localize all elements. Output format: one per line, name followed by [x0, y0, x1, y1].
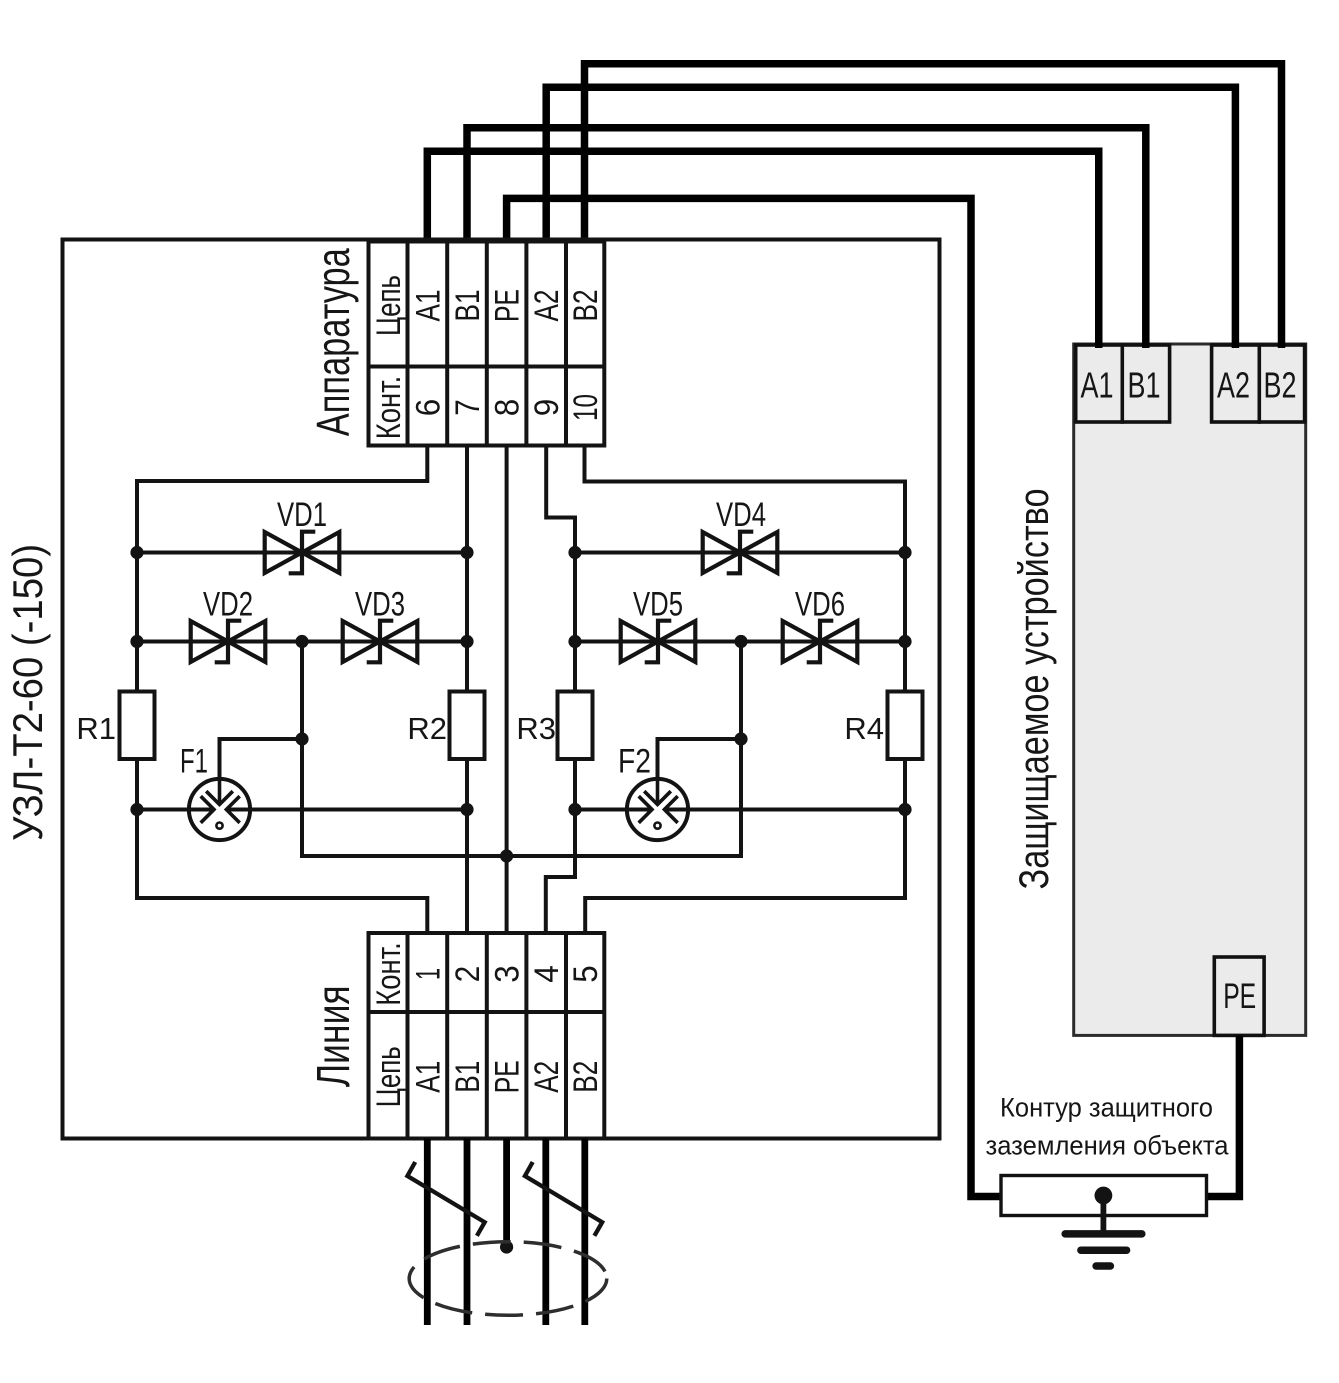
svg-text:8: 8 — [489, 399, 527, 417]
cable B1: contact 7 to device B1 — [467, 128, 1146, 348]
junction dot node F2 top — [734, 732, 747, 745]
junction dot A2 rail / F2 row — [568, 803, 581, 816]
svg-text:B2: B2 — [1264, 365, 1297, 406]
svg-text:VD1: VD1 — [277, 496, 327, 534]
junction dot B1 rail / VD3 row — [460, 635, 473, 648]
wire F2 top electrode to node — [658, 739, 742, 779]
cable slash mark 1 — [407, 1162, 484, 1236]
svg-text:R3: R3 — [516, 711, 556, 746]
junction dot B2 rail / F2 row — [898, 803, 911, 816]
svg-text:A1: A1 — [1081, 365, 1114, 406]
F1 right arrow — [226, 796, 250, 823]
F1 left arrow — [189, 796, 214, 823]
surge arrester F1 circle — [189, 779, 250, 840]
wire B1: contact 7 to contact 2 — [465, 446, 469, 934]
cable bundle dashed ellipse — [409, 1242, 607, 1316]
svg-text:VD3: VD3 — [355, 586, 405, 624]
line cable 3 — [503, 1139, 510, 1243]
ground symbol bar 2 — [1081, 1246, 1127, 1254]
svg-text:1: 1 — [409, 968, 447, 980]
cable slash mark 2 — [525, 1162, 602, 1236]
F2 top arrow — [644, 779, 671, 805]
line cable 5 — [581, 1139, 588, 1326]
ground bus junction dot — [1095, 1187, 1113, 1205]
protected device box — [1074, 344, 1306, 1035]
terminal block Аппаратура: outer frame — [369, 242, 605, 446]
ground symbol bar 1 — [1065, 1230, 1142, 1238]
wire center node link down-across-up — [302, 642, 741, 857]
svg-text:2: 2 — [449, 966, 487, 983]
ground bus bar — [1001, 1176, 1207, 1216]
junction dot node VD5-VD6 — [734, 635, 747, 648]
svg-text:R4: R4 — [844, 711, 884, 746]
junction dot node F1 top — [295, 732, 308, 745]
svg-text:Цепь: Цепь — [370, 1046, 408, 1107]
TVS diode VD4 — [703, 532, 778, 574]
wire F1 top electrode to node — [220, 739, 303, 779]
terminal block Линия: outer frame — [369, 933, 605, 1139]
wire row VD1 — [137, 551, 467, 555]
svg-text:10: 10 — [567, 394, 605, 421]
svg-text:9: 9 — [528, 399, 566, 417]
svg-text:3: 3 — [489, 965, 527, 983]
cable A2: contact 9 to device A2 — [546, 87, 1235, 348]
wire row F1 right — [227, 808, 468, 812]
svg-text:R1: R1 — [76, 711, 116, 746]
F1 top arrow — [206, 779, 233, 805]
svg-text:РЕ: РЕ — [489, 1060, 527, 1093]
svg-text:Линия: Линия — [307, 985, 359, 1087]
surge arrester F2 circle — [627, 779, 688, 840]
junction dot A2 rail / VD5 row — [568, 635, 581, 648]
junction dot A2 rail / VD4 row — [568, 546, 581, 559]
ground symbol stem — [1101, 1196, 1107, 1231]
terminal block Аппаратура: row divider — [369, 365, 605, 369]
cable PE from device PE terminal to ground bus — [1207, 1036, 1240, 1197]
device terminal B1 — [1122, 345, 1169, 422]
svg-text:А2: А2 — [528, 1061, 566, 1093]
F1 bottom electrode dot — [216, 823, 222, 829]
wire A2: contact 9 down with step to contact 4 — [546, 446, 575, 934]
cable B2: contact 10 to device B2 — [585, 64, 1282, 348]
svg-text:заземления объекта: заземления объекта — [986, 1131, 1230, 1161]
TVS diode VD2 — [191, 621, 266, 663]
wire row VD2-VD3 — [137, 640, 467, 644]
wire row VD4 — [575, 551, 905, 555]
line cable 2 — [464, 1139, 471, 1326]
terminal block Аппаратура: column dividers — [408, 242, 567, 446]
svg-text:Аппаратура: Аппаратура — [307, 248, 359, 436]
F2 left arrow — [627, 796, 652, 823]
svg-text:Контур защитного: Контур защитного — [1000, 1093, 1213, 1123]
wire A1: contact 6 down, left rail, to contact 1 — [137, 446, 427, 934]
svg-text:B1: B1 — [1128, 365, 1161, 406]
junction dot B1 rail / F1 row — [460, 803, 473, 816]
F2 right arrow — [664, 796, 688, 823]
svg-text:А1: А1 — [409, 290, 447, 322]
junction dot A1 rail / F1 row — [130, 803, 143, 816]
F2 bottom electrode dot — [654, 823, 660, 829]
junction dot A1 rail / VD2 row — [130, 635, 143, 648]
device terminal PE — [1214, 957, 1264, 1035]
device terminal B2 — [1259, 345, 1304, 422]
svg-text:VD4: VD4 — [716, 496, 766, 534]
svg-text:7: 7 — [449, 399, 487, 416]
svg-text:5: 5 — [567, 965, 605, 983]
device terminal A1 — [1076, 345, 1123, 422]
TVS diode VD1 — [265, 532, 340, 574]
device terminal A2 — [1212, 345, 1260, 422]
svg-text:Защищаемое устройство: Защищаемое устройство — [1010, 489, 1057, 890]
resistor R3 — [558, 692, 593, 760]
svg-text:УЗЛ-Т2-60 (-150): УЗЛ-Т2-60 (-150) — [4, 544, 51, 841]
cable PE: contact 8 to ground bus — [507, 198, 1002, 1196]
junction dot B2 rail / VD6 row — [898, 635, 911, 648]
svg-text:R2: R2 — [407, 711, 447, 746]
svg-text:F1: F1 — [180, 743, 208, 781]
svg-text:РЕ: РЕ — [489, 289, 527, 322]
svg-text:Цепь: Цепь — [370, 275, 408, 336]
svg-text:PE: PE — [1223, 977, 1256, 1016]
svg-text:F2: F2 — [618, 743, 651, 781]
svg-text:В2: В2 — [567, 1061, 605, 1093]
svg-text:4: 4 — [528, 965, 566, 983]
wire B2: contact 10 down, right rail, to contact 5 — [585, 446, 906, 934]
TVS diode VD3 — [343, 621, 418, 663]
cable A1: contact 6 to device A1 — [427, 151, 1098, 348]
TVS diode VD6 — [783, 621, 858, 663]
wire row F1 left — [137, 808, 214, 812]
svg-text:А1: А1 — [409, 1061, 447, 1093]
junction dot node VD2-VD3 — [295, 635, 308, 648]
svg-text:Конт.: Конт. — [370, 376, 408, 440]
svg-text:VD5: VD5 — [633, 586, 683, 624]
svg-text:В1: В1 — [449, 290, 487, 322]
wire PE: contact 8 to contact 3 — [505, 446, 509, 934]
svg-text:A2: A2 — [1217, 365, 1250, 406]
terminal block Линия: column dividers — [408, 933, 567, 1139]
wire row VD5-VD6 — [575, 640, 905, 644]
UZL outer box — [63, 240, 940, 1139]
junction dot A1 rail / VD1 row — [130, 546, 143, 559]
TVS diode VD5 — [621, 621, 696, 663]
wire row F2 left — [575, 808, 652, 812]
resistor R1 — [120, 692, 155, 760]
PE line end dot — [500, 1240, 513, 1253]
resistor R2 — [450, 692, 485, 760]
ground symbol bar 3 — [1096, 1262, 1110, 1270]
line cable 4 — [542, 1139, 549, 1326]
svg-text:Конт.: Конт. — [370, 942, 408, 1006]
svg-text:VD2: VD2 — [203, 586, 253, 624]
svg-text:В1: В1 — [449, 1061, 487, 1093]
wire row F2 right — [665, 808, 906, 812]
svg-text:6: 6 — [409, 399, 447, 417]
svg-text:В2: В2 — [567, 290, 605, 322]
svg-text:VD6: VD6 — [795, 586, 845, 624]
junction dot B1 rail / VD1 row — [460, 546, 473, 559]
line cable 1 — [424, 1139, 431, 1326]
junction dot node PE — [500, 849, 513, 862]
junction dot B2 rail / VD4 row — [898, 546, 911, 559]
terminal block Линия: row divider — [369, 1010, 605, 1014]
svg-text:А2: А2 — [528, 290, 566, 322]
resistor R4 — [888, 692, 923, 760]
